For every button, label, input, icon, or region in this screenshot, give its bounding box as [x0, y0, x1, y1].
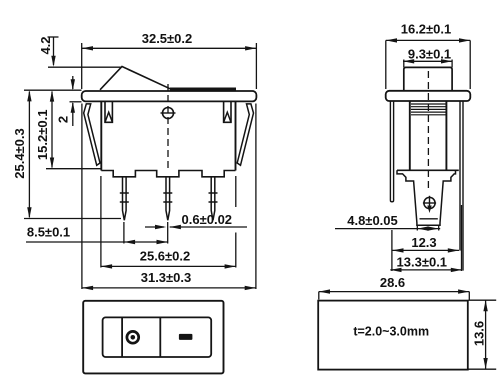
svg-text:0.6±0.02: 0.6±0.02 [182, 212, 233, 227]
svg-text:31.3±0.3: 31.3±0.3 [141, 270, 192, 285]
svg-text:25.6±0.2: 25.6±0.2 [140, 249, 191, 264]
svg-text:t=2.0~3.0mm: t=2.0~3.0mm [353, 325, 429, 339]
svg-text:2: 2 [56, 116, 71, 123]
svg-text:28.6: 28.6 [380, 275, 405, 290]
svg-text:16.2±0.1: 16.2±0.1 [401, 22, 452, 37]
svg-text:32.5±0.2: 32.5±0.2 [142, 31, 193, 46]
svg-text:4.8±0.05: 4.8±0.05 [347, 213, 398, 228]
svg-text:13.6: 13.6 [472, 321, 487, 346]
svg-text:13.3±0.1: 13.3±0.1 [397, 254, 448, 269]
svg-text:9.3±0.1: 9.3±0.1 [408, 46, 451, 61]
svg-text:8.5±0.1: 8.5±0.1 [27, 225, 70, 240]
svg-text:4.2: 4.2 [38, 36, 53, 54]
svg-text:15.2±0.1: 15.2±0.1 [35, 110, 50, 161]
svg-text:12.3: 12.3 [411, 235, 436, 250]
svg-text:25.4±0.3: 25.4±0.3 [12, 128, 27, 179]
